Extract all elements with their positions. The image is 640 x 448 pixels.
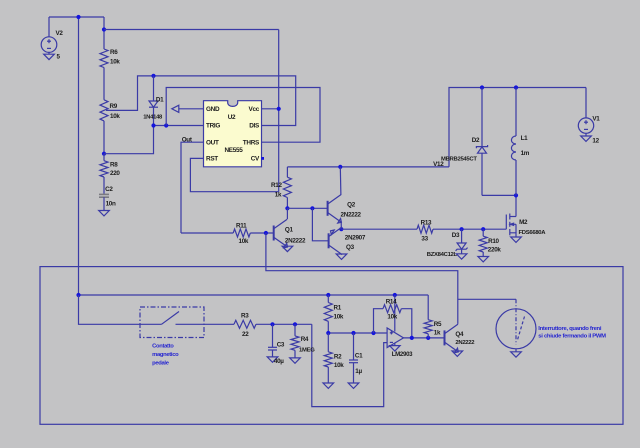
wire Vcc column (278, 30, 280, 192)
wire Q4 collector to switch (458, 298, 516, 300)
diode D3 zener BZX84C12L (456, 243, 468, 251)
svg-text:1k: 1k (434, 330, 441, 337)
wire R2 bottom (327, 367, 329, 383)
svg-text:R4: R4 (301, 336, 309, 343)
wire R4 bottom (294, 350, 296, 358)
switch interruttore symbol (496, 299, 536, 349)
svg-text:1N4148: 1N4148 (143, 114, 163, 120)
node Q2 collector rail (338, 165, 342, 169)
wire R1 bottom lead (327, 321, 329, 333)
ground C2 (99, 211, 110, 216)
svg-text:40µ: 40µ (274, 358, 284, 365)
wire M2 drain (515, 195, 517, 216)
wire Q3 base (312, 208, 328, 241)
ground C3 (267, 357, 278, 362)
ground M2 source (511, 237, 522, 242)
node R4 (293, 322, 297, 326)
resistor R1 (324, 303, 332, 322)
op-amp U2 NE555 body (204, 101, 262, 167)
svg-text:1µ: 1µ (355, 368, 362, 375)
resistor R9 (100, 100, 108, 121)
ground R10 (478, 257, 489, 262)
wire L1 top lead (515, 88, 517, 137)
svg-text:THRS: THRS (243, 139, 260, 146)
node Q1 base (264, 231, 268, 235)
wire plus input (328, 332, 387, 334)
svg-text:R14: R14 (386, 298, 397, 305)
resistor R8 (100, 161, 108, 177)
svg-text:TRIG: TRIG (206, 123, 220, 130)
diode D1 1N4148 (149, 101, 158, 107)
node R1 top (326, 293, 330, 297)
node D3 (460, 227, 464, 231)
resistor R14 (383, 305, 401, 313)
wire R8 node to TRIG node (104, 126, 154, 154)
svg-text:220k: 220k (488, 247, 502, 254)
resistor R2 (324, 352, 332, 367)
wire D2 top lead (481, 88, 483, 147)
wire to R13 (341, 228, 417, 230)
svg-text:R9: R9 (110, 103, 118, 110)
node R14 right (410, 336, 414, 340)
wire TRIG (154, 125, 204, 127)
transistor Q1 2N2222 (274, 219, 288, 248)
svg-text:magnetico: magnetico (152, 352, 179, 358)
svg-text:RST: RST (206, 156, 218, 163)
svg-text:R6: R6 (110, 49, 118, 56)
node M2 drain (514, 193, 518, 197)
ground Q3 collector (336, 254, 347, 259)
svg-text:1m: 1m (521, 150, 530, 157)
ground V2 (44, 54, 55, 59)
svg-text:pedale: pedale (152, 360, 170, 366)
svg-text:R8: R8 (110, 161, 118, 168)
wire switch bottom (515, 349, 517, 352)
transistor M2 FDS6680A (506, 214, 516, 238)
svg-text:NE555: NE555 (224, 147, 243, 154)
node rail top (76, 15, 80, 19)
svg-text:GND: GND (206, 106, 220, 113)
svg-text:R2: R2 (334, 353, 342, 360)
svg-text:D3: D3 (452, 232, 460, 239)
wire R3 to corner (256, 323, 312, 325)
wire long left rail (78, 17, 80, 295)
resistor R5 (424, 320, 432, 334)
wire RST pin (190, 158, 278, 191)
wire C1 bottom (353, 363, 355, 383)
wire top (49, 16, 104, 18)
svg-text:10k: 10k (334, 314, 344, 321)
ground Q1 emitter (282, 246, 293, 251)
node divider (326, 331, 330, 335)
svg-text:R5: R5 (434, 321, 442, 328)
svg-text:2N2222: 2N2222 (285, 237, 306, 244)
wire D2 to L1 node (482, 194, 516, 196)
svg-text:MBRB2545CT: MBRB2545CT (441, 156, 477, 162)
wire +5 lower rail (79, 294, 429, 296)
wire D3 lead (461, 229, 463, 243)
svg-text:33: 33 (421, 235, 428, 242)
wire R13 to gate (433, 228, 506, 230)
svg-text:10k: 10k (110, 113, 120, 120)
wire V2 top lead (48, 17, 50, 37)
svg-text:OUT: OUT (206, 139, 219, 146)
svg-text:R13: R13 (421, 220, 432, 227)
wire R6-R9 (103, 68, 105, 100)
wire C1 lead (353, 333, 355, 360)
wire to Q2 base (287, 207, 327, 209)
svg-text:Q2: Q2 (347, 201, 356, 208)
wire R14 right leg (401, 309, 412, 338)
node D1 anode (151, 74, 155, 78)
node R5 bottom (426, 336, 430, 340)
ground C1 (348, 383, 359, 388)
voltage source V2 (41, 37, 57, 53)
wire D2 bottom lead (481, 153, 483, 195)
box chassis loop (40, 267, 623, 425)
resistor R3 (234, 320, 256, 328)
wire R8-C2 (103, 177, 105, 194)
voltage source V1 (578, 118, 593, 133)
node driver output (339, 227, 343, 231)
svg-text:Interruttore, quando freni: Interruttore, quando freni (538, 326, 602, 332)
svg-text:C3: C3 (277, 341, 285, 348)
svg-text:10k: 10k (387, 313, 397, 320)
svg-text:FDS6680A: FDS6680A (519, 230, 547, 236)
resistor R12 (283, 177, 291, 197)
resistor R4 (291, 336, 299, 350)
node R6 top (102, 27, 106, 31)
wire V2 bottom (48, 52, 50, 54)
wire Q1 collector lead (286, 208, 288, 219)
svg-text:D1: D1 (156, 96, 164, 103)
ground R2 (323, 383, 334, 388)
svg-text:LM2903: LM2903 (392, 351, 413, 358)
svg-text:Contatto: Contatto (152, 343, 174, 349)
wire OUT to R11 (181, 232, 233, 234)
node L1 top (514, 85, 518, 89)
capacitor C2 (99, 194, 109, 197)
resistor R13 (417, 225, 433, 233)
svg-text:10k: 10k (239, 238, 249, 245)
svg-text:BZX84C12L: BZX84C12L (427, 252, 458, 258)
svg-text:2N2222: 2N2222 (341, 211, 362, 218)
ground V1 (581, 136, 592, 141)
wire R12 bottom lead (286, 198, 288, 209)
svg-text:R12: R12 (271, 182, 282, 189)
wire pedal sense route (312, 324, 387, 406)
wire TRIG to THRS loop (166, 88, 320, 143)
wire D3 bottom (461, 249, 463, 254)
svg-text:R11: R11 (236, 222, 247, 229)
diode D2 MBRB2545CT schottky (476, 145, 487, 153)
wire V1 bottom (585, 133, 587, 136)
svg-text:C2: C2 (105, 186, 113, 193)
node D2 top (480, 85, 484, 89)
svg-text:2N2907: 2N2907 (345, 235, 366, 242)
svg-text:220: 220 (110, 170, 120, 177)
wire opamp output (404, 337, 445, 339)
svg-text:2N2222: 2N2222 (455, 340, 475, 346)
ground D3 (456, 254, 467, 259)
capacitor C3 (268, 347, 277, 350)
svg-text:R10: R10 (488, 238, 499, 245)
node Vcc (277, 107, 281, 111)
svg-text:R3: R3 (241, 313, 249, 320)
svg-text:V2: V2 (56, 30, 64, 37)
svg-text:L1: L1 (521, 135, 529, 142)
node Q1 collector (285, 206, 289, 210)
node rail pedal (76, 293, 80, 297)
wire R2 top lead (327, 333, 329, 352)
U2 GND port arrow (172, 105, 204, 112)
node C1 top (351, 331, 355, 335)
node TRIG b (164, 123, 168, 127)
svg-text:Out: Out (182, 136, 193, 143)
wire R10 bottom (482, 252, 484, 257)
ground Q4 emitter (452, 351, 463, 356)
transistor Q3 2N2907 (329, 227, 343, 255)
node R14 left (371, 331, 375, 335)
capacitor C1 (349, 360, 358, 363)
wire C2 bottom (103, 197, 105, 210)
svg-text:Q1: Q1 (285, 226, 294, 233)
box pedal contact (dashed) (140, 307, 204, 338)
wire R9 bottom lead (103, 121, 105, 154)
wire R5 top leg (427, 295, 429, 320)
svg-text:D2: D2 (472, 137, 480, 144)
svg-text:C1: C1 (355, 353, 363, 360)
node R10 (481, 227, 485, 231)
wire R14 left leg (374, 309, 384, 333)
resistor R10 (479, 236, 487, 252)
svg-text:1MEG: 1MEG (299, 348, 315, 354)
wire opamp V+ (394, 295, 396, 332)
transistor Q4 2N2222 (445, 324, 459, 353)
wire Vcc pin (262, 108, 279, 110)
wire rail to V12 top (449, 88, 586, 167)
wire D1 anode lead (153, 76, 155, 101)
node TRIG a (151, 123, 155, 127)
svg-text:V1: V1 (592, 115, 600, 122)
node R8 top (102, 152, 106, 156)
wire C3 lead (272, 324, 274, 347)
svg-text:22: 22 (242, 331, 249, 338)
svg-text:10k: 10k (334, 362, 344, 369)
ground switch (511, 352, 522, 357)
wire R10 lead (482, 229, 484, 236)
wire pedal feed (79, 295, 141, 324)
wire R5 bottom lead (427, 334, 429, 338)
wire L1 bottom lead (515, 160, 517, 195)
transistor Q2 2N2222 (328, 195, 342, 224)
svg-text:si chiude fermando il PWM: si chiude fermando il PWM (538, 334, 606, 340)
wire R9 tap to D1 node (106, 76, 296, 126)
svg-text:Q4: Q4 (455, 331, 464, 338)
node opamp V+ (393, 293, 397, 297)
wire OUT pin (181, 142, 204, 233)
svg-text:DIS: DIS (249, 123, 260, 130)
svg-text:V12: V12 (433, 161, 444, 168)
svg-text:Q3: Q3 (346, 244, 355, 251)
wire opamp V- (394, 343, 396, 346)
wire R4 lead (294, 324, 296, 336)
wire R1 top lead (327, 295, 329, 303)
svg-text:R1: R1 (334, 304, 342, 311)
wire C3 bottom (272, 350, 274, 357)
wire R11 to Q1 base (250, 232, 273, 234)
wire R8 top lead (103, 154, 105, 161)
inductor L1 (511, 136, 516, 160)
pin CV stub (261, 157, 264, 160)
svg-text:U2: U2 (228, 114, 236, 121)
svg-text:Vcc: Vcc (249, 106, 260, 113)
wire R12 top rail (287, 166, 449, 168)
wire V1 top lead (585, 88, 587, 118)
svg-text:12: 12 (592, 138, 599, 145)
wire R12 top lead (286, 167, 288, 177)
wire R6 top lead (103, 17, 105, 49)
resistor R6 (100, 49, 108, 68)
resistor R11 (233, 229, 250, 237)
ground R4 (290, 358, 301, 363)
wire Q1 base node to lower loop (266, 233, 458, 324)
svg-text:1k: 1k (275, 191, 282, 198)
switch pedal contact (140, 312, 234, 325)
ground opamp (390, 346, 401, 351)
wire Q2 collector (339, 167, 342, 195)
node C3 (270, 322, 274, 326)
svg-text:10k: 10k (110, 59, 120, 66)
wire to Vcc column (104, 29, 279, 31)
svg-text:M2: M2 (519, 219, 528, 226)
op-amp U3 LM2903 (387, 328, 403, 348)
svg-text:CV: CV (251, 156, 260, 163)
node Q3 base branch (310, 206, 314, 210)
svg-text:10n: 10n (106, 201, 116, 208)
wire D1 cathode lead (153, 107, 155, 125)
wire Q2 emitter (340, 222, 342, 230)
